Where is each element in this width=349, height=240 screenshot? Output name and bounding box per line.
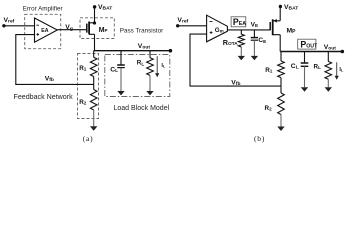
svg-text:Pass Transistor: Pass Transistor (120, 28, 163, 35)
svg-text:Feedback Network: Feedback Network (14, 93, 74, 101)
svg-text:RL: RL (314, 63, 322, 70)
svg-text:R1: R1 (265, 67, 273, 74)
svg-text:EA: EA (41, 28, 48, 34)
svg-text:MP: MP (287, 28, 297, 36)
svg-text:Load Block Model: Load Block Model (114, 105, 170, 112)
svg-text:Gm: Gm (215, 27, 224, 34)
svg-text:IL: IL (161, 63, 166, 69)
svg-text:(b): (b) (254, 134, 265, 143)
svg-text:RL: RL (137, 60, 145, 67)
svg-text:VE: VE (251, 22, 258, 29)
svg-text:IL: IL (339, 67, 344, 73)
svg-text:(a): (a) (83, 134, 94, 143)
svg-text:Error Amplifier: Error Amplifier (23, 5, 63, 12)
svg-text:MP: MP (99, 27, 108, 34)
svg-text:R2: R2 (79, 99, 87, 106)
svg-text:R1: R1 (79, 65, 87, 72)
svg-text:CE: CE (258, 37, 266, 44)
svg-text:R2: R2 (265, 105, 273, 112)
